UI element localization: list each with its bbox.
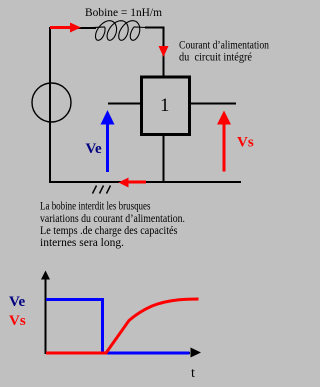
wire: right stub of IC — [190, 103, 236, 105]
svg-text:Ve: Ve — [86, 141, 102, 157]
svg-text:Le temps .de charge des capaci: Le temps .de charge des capacités — [40, 225, 178, 237]
arrow: red supply-current arrowhead pointing down — [159, 46, 169, 57]
wire: bottom ground rail — [49, 181, 241, 183]
svg-text:Vs: Vs — [237, 135, 254, 151]
arrow: red current arrow on top wire — [50, 23, 81, 33]
svg-text:1: 1 — [160, 96, 169, 116]
wire: top horizontal segment — [49, 27, 96, 29]
IC U1 box — [142, 77, 190, 135]
ground symbol — [93, 186, 111, 194]
curve: blue Ve step — [46, 300, 190, 354]
wire: from inductor to corner, down to IC — [145, 28, 164, 77]
inductor L1 (Bobine 1nH/m) — [90, 21, 146, 41]
source V1 (circle) — [32, 83, 71, 122]
svg-text:internes sera long.: internes sera long. — [40, 237, 124, 249]
wire: IC bottom to ground rail — [163, 135, 165, 183]
graph x-axis — [45, 348, 201, 358]
svg-text:variations du courant d’alimen: variations du courant d’alimentation. — [40, 213, 185, 225]
svg-text:du circuit intégré: du circuit intégré — [179, 50, 252, 64]
wire: left stub of IC — [108, 103, 141, 105]
svg-text:La bobine interdit les brusque: La bobine interdit les brusques — [40, 201, 151, 213]
svg-text:Bobine = 1nH/m: Bobine = 1nH/m — [85, 5, 163, 19]
graph y-axis — [41, 271, 50, 355]
wire: left vertical branch — [49, 28, 51, 182]
curve: red Vs charge curve — [46, 299, 199, 353]
caption paragraph — [40, 201, 185, 250]
label: Courant d'alimentation du circuit integre — [179, 38, 269, 64]
svg-text:Vs: Vs — [9, 313, 26, 329]
arrow: blue Ve arrow pointing up — [101, 110, 115, 172]
arrow: red return-current arrow pointing left on ground rail — [119, 178, 147, 188]
svg-text:t: t — [191, 366, 195, 381]
arrow: red Vs arrow pointing up — [217, 111, 231, 172]
svg-text:Ve: Ve — [9, 294, 25, 310]
